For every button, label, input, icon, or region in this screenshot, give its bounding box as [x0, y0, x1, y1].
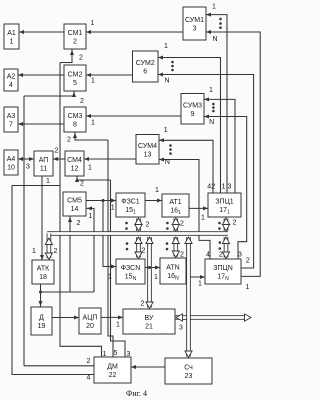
svg-text:42: 42: [207, 184, 215, 191]
svg-text:СМ1: СМ1: [68, 30, 83, 37]
svg-text:АЦП: АЦП: [83, 315, 98, 322]
block ATK 18: [32, 260, 54, 284]
svg-text:А2: А2: [7, 74, 16, 81]
svg-text:3: 3: [193, 26, 197, 33]
bus zpc1 to bus: [222, 218, 229, 231]
svg-text:А1: А1: [7, 30, 16, 37]
svg-text:1: 1: [198, 281, 202, 288]
block SCH 23: [165, 358, 212, 384]
svg-text:1: 1: [91, 78, 95, 85]
dots below fzs1: [125, 222, 128, 230]
svg-text:14: 14: [71, 206, 79, 213]
svg-text:5: 5: [114, 350, 118, 357]
svg-text:N: N: [164, 78, 169, 85]
svg-text:Сч: Сч: [184, 365, 193, 372]
svg-text:АП: АП: [39, 157, 49, 164]
wire d to acp: [52, 316, 79, 320]
svg-text:19: 19: [38, 323, 46, 330]
wire sum4 input 1 elbow to zpc1 top 4: [159, 138, 213, 193]
junction node fzsN output: [148, 266, 151, 269]
wire cm2 to a2: [18, 73, 64, 77]
wire atk node to cm5 input 1: [86, 206, 94, 292]
bus to sch: [185, 237, 192, 358]
dots below at1: [166, 222, 169, 230]
svg-text:3: 3: [127, 351, 131, 358]
svg-text:СУМ4: СУМ4: [138, 143, 157, 150]
svg-text:1: 1: [91, 20, 95, 27]
block ZPCN 17_N: [205, 259, 241, 284]
bus horizontal data bus: [47, 231, 228, 236]
block AP 11: [34, 151, 53, 176]
svg-text:2: 2: [219, 252, 223, 259]
svg-text:9: 9: [191, 111, 195, 118]
bus to vu top input 2: [146, 237, 153, 309]
bus fzs1 to bus: [135, 218, 142, 231]
svg-text:1: 1: [154, 274, 158, 281]
svg-text:АТ1: АТ1: [169, 199, 181, 206]
svg-text:2: 2: [77, 220, 81, 227]
bus vu horizontal io: [175, 314, 251, 321]
block FZSN 15_N: [116, 259, 145, 284]
svg-text:А4: А4: [7, 156, 16, 163]
svg-text:1: 1: [10, 39, 14, 46]
bus to atN: [172, 237, 179, 258]
svg-text:2: 2: [54, 248, 58, 255]
svg-text:АТК: АТК: [37, 266, 50, 273]
svg-text:8: 8: [73, 122, 77, 129]
block SUM3 9: [181, 94, 204, 125]
block FZS1 15_1: [116, 193, 145, 217]
svg-text:2: 2: [87, 358, 91, 365]
block SUM2 6: [133, 51, 159, 82]
svg-text:1: 1: [91, 120, 95, 127]
block A2 4: [4, 69, 18, 91]
svg-text:2: 2: [67, 137, 71, 144]
svg-text:1: 1: [32, 248, 36, 255]
dots above zpcN: [219, 241, 222, 250]
dots above fzsN: [126, 242, 129, 250]
svg-text:2: 2: [180, 221, 184, 228]
svg-text:СМ4: СМ4: [67, 157, 82, 164]
svg-text:2: 2: [73, 39, 77, 46]
caption fig 4: [126, 389, 147, 398]
wire fzs1 to at1: [145, 199, 162, 203]
svg-text:1: 1: [88, 165, 92, 172]
svg-text:7: 7: [9, 122, 13, 129]
svg-text:2: 2: [142, 248, 146, 255]
wire sum2 input 1 elbow to zpc1 top 2: [158, 56, 221, 194]
wire sum4 to cm4: [84, 157, 136, 161]
block DM 22: [94, 357, 131, 383]
wire v-line cm3 elbow to dm input 5: [108, 140, 113, 357]
wire center v-line cm1 elbow to dm input 1: [60, 63, 102, 358]
bus atk elbow: [45, 234, 52, 260]
svg-text:2: 2: [180, 252, 184, 259]
block A1 1: [4, 24, 19, 49]
svg-text:АТN: АТN: [166, 265, 179, 272]
wire sum1 input 1 elbow to zpc1 top 1: [206, 13, 227, 193]
bus to zpcN: [222, 237, 229, 259]
wire cm5 bottom input 2: [68, 216, 72, 292]
svg-text:1: 1: [209, 87, 213, 94]
svg-text:2: 2: [80, 181, 84, 188]
svg-text:СУМ3: СУМ3: [183, 102, 202, 109]
svg-text:Фиг. 4: Фиг. 4: [126, 389, 147, 398]
wire cm4 to ap input 2: [53, 157, 65, 161]
junction node cm5 output: [102, 199, 105, 202]
svg-text:10: 10: [7, 165, 15, 172]
svg-text:1: 1: [164, 127, 168, 134]
wire dm out to cm2 bottom input 2: [24, 91, 76, 366]
wire cm5 to fzs1: [86, 199, 116, 203]
svg-text:2: 2: [146, 222, 150, 229]
svg-text:2: 2: [55, 148, 59, 155]
svg-text:3: 3: [179, 325, 183, 332]
svg-text:ЗПЦ1: ЗПЦ1: [215, 199, 233, 206]
wire dm out to dm input 2 horiz: [24, 365, 94, 367]
dots sum2 inputs: [171, 61, 174, 72]
svg-text:1 3: 1 3: [222, 184, 232, 191]
block CM5 14: [63, 192, 86, 216]
bus to fzsN: [135, 237, 142, 259]
wire cm1 to a1: [19, 30, 64, 34]
wire fzsN to atN: [145, 266, 160, 270]
svg-text:3: 3: [238, 252, 242, 259]
svg-text:1: 1: [155, 187, 159, 194]
pin number labels: [26, 4, 250, 382]
svg-text:ФЗС1: ФЗС1: [121, 199, 140, 206]
wire atk output to d: [39, 284, 95, 307]
block CM4 12: [65, 151, 84, 176]
block VU 21: [123, 309, 175, 334]
svg-text:3: 3: [26, 164, 30, 171]
block A4 10: [4, 150, 18, 175]
svg-text:23: 23: [185, 373, 193, 380]
svg-text:1: 1: [246, 284, 250, 291]
block CM2 5: [64, 65, 86, 91]
svg-text:ФЗСN: ФЗСN: [121, 265, 141, 272]
svg-text:1: 1: [46, 178, 50, 185]
svg-text:СУМ2: СУМ2: [136, 60, 155, 67]
block CM1 2: [64, 24, 86, 49]
svg-text:1: 1: [212, 4, 216, 11]
svg-text:1: 1: [89, 213, 93, 220]
svg-text:Д: Д: [39, 315, 44, 322]
svg-text:СМ2: СМ2: [68, 72, 83, 79]
wire node to cm1 bottom input 2: [60, 49, 74, 63]
svg-text:1: 1: [201, 215, 205, 222]
svg-text:N: N: [212, 36, 217, 43]
block SUM1 3: [183, 7, 206, 40]
svg-text:11: 11: [40, 166, 47, 173]
wire cm3 bottom input 2: [73, 132, 108, 140]
wire cm3 to a3: [18, 122, 64, 126]
svg-text:ДМ: ДМ: [107, 364, 118, 371]
dots below zpc1: [218, 222, 221, 230]
wire left v-line to dm input 4: [12, 186, 94, 375]
wire sum3 input N elbow to zpcN top 3: [204, 115, 247, 260]
bus at1 to bus: [172, 218, 179, 231]
svg-text:2: 2: [233, 220, 237, 227]
block ATN 16_N: [160, 258, 186, 284]
wire a4 to ap bidirectional 3: [18, 157, 34, 161]
wire branch down to fzsN input: [103, 201, 116, 269]
block ACP 20: [79, 308, 101, 334]
wire sum3 input 1 elbow to zpc1 top 3: [204, 97, 235, 193]
svg-text:1: 1: [108, 274, 112, 281]
block CM3 8: [64, 107, 86, 132]
svg-text:СМ3: СМ3: [68, 113, 83, 120]
svg-text:N: N: [209, 119, 214, 126]
wire at1 to zpc1: [189, 206, 208, 210]
svg-text:2: 2: [80, 98, 84, 105]
svg-text:22: 22: [109, 372, 117, 379]
svg-text:2: 2: [141, 301, 145, 308]
dots sum4 inputs: [169, 144, 172, 155]
svg-text:5: 5: [73, 80, 77, 87]
junction node atk output: [39, 291, 42, 294]
svg-text:1: 1: [116, 322, 120, 329]
svg-text:12: 12: [71, 166, 79, 173]
wire sum2 to cm2: [86, 73, 133, 77]
svg-text:ЗПЦN: ЗПЦN: [213, 265, 233, 272]
svg-text:СМ5: СМ5: [67, 198, 82, 205]
svg-text:2: 2: [79, 55, 83, 62]
svg-text:4: 4: [9, 82, 13, 89]
wire acp to vu input 1: [101, 315, 123, 319]
wire cm4 bottom input 2: [75, 176, 111, 182]
block A3 7: [4, 107, 18, 132]
wire atN to zpcN: [186, 275, 205, 279]
wire sum2 input N elbow to zpcN right 2: [158, 73, 254, 269]
wire v-line cm4 elbow to dm input 3: [111, 180, 126, 357]
svg-text:2: 2: [246, 258, 250, 265]
svg-text:А3: А3: [7, 113, 16, 120]
svg-text:4: 4: [206, 252, 210, 259]
wire sum1 to cm1: [86, 30, 183, 34]
wire sum4 input N elbow to zpcN top 4: [159, 158, 210, 260]
block AT1 16_1: [162, 194, 189, 217]
svg-text:СУМ1: СУМ1: [185, 17, 204, 24]
block ZPC1 17_1: [208, 193, 241, 217]
svg-text:1: 1: [103, 351, 107, 358]
block D 19: [31, 307, 52, 335]
svg-text:1: 1: [111, 205, 115, 212]
svg-text:N: N: [165, 159, 170, 166]
svg-text:13: 13: [144, 151, 152, 158]
svg-text:6: 6: [143, 69, 147, 76]
wire sum3 to cm3: [86, 114, 181, 118]
svg-text:1: 1: [164, 43, 168, 50]
block SUM4 13: [136, 135, 159, 165]
wire ap output 1 tee: [12, 176, 60, 260]
dots above atN: [166, 242, 169, 250]
svg-text:ВУ: ВУ: [145, 315, 154, 322]
dots sum3 inputs: [212, 103, 215, 113]
svg-text:21: 21: [145, 324, 153, 331]
svg-text:18: 18: [39, 274, 47, 281]
wire sch to dm: [131, 365, 165, 369]
svg-text:4: 4: [87, 375, 91, 382]
svg-text:20: 20: [86, 323, 94, 330]
wire sum1 input N elbow to zpcN right 1: [206, 30, 260, 276]
dots sum1 inputs: [219, 18, 222, 29]
